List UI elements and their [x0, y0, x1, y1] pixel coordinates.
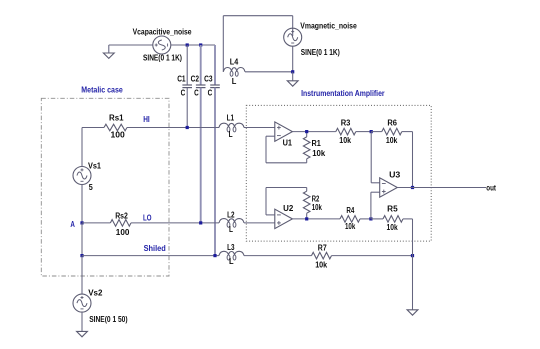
inductor L1 [219, 123, 244, 132]
node V4 bottom junction [291, 70, 294, 73]
op-amp U3 [380, 178, 398, 197]
label R7 [318, 244, 327, 253]
wire U1 feedback to R1 bottom [266, 162, 307, 164]
svg-text:Vcapacitive_noise: Vcapacitive_noise [133, 27, 192, 36]
wire ground to V3 left [109, 44, 153, 46]
node R4 / R5 junction [369, 217, 372, 220]
wire R2 bottom lead [306, 213, 308, 219]
instrumentation amplifier enclosure box (dotted) [246, 105, 431, 241]
node top of C1 [186, 43, 189, 46]
value 100 of Rs1 [111, 130, 126, 139]
svg-text:out: out [486, 183, 496, 192]
value C of C3 [208, 88, 213, 97]
svg-text:C: C [194, 88, 199, 97]
label L1 [227, 114, 235, 123]
label Vcapacitive_noise [133, 27, 192, 36]
node U2 output [305, 217, 308, 220]
inductor L2 [219, 219, 244, 228]
svg-text:Rs2: Rs2 [115, 211, 128, 220]
svg-text:U3: U3 [389, 171, 401, 180]
label R5 [387, 204, 398, 213]
voltage source Vs1 [73, 167, 91, 185]
label Rs2 [115, 211, 128, 220]
svg-text:10k: 10k [312, 149, 326, 158]
node HI / C1 junction [186, 126, 189, 129]
wire U2 inverting input left [266, 214, 275, 216]
svg-text:L: L [229, 257, 234, 266]
wire R3 node down to U3 inverting input [370, 132, 372, 183]
svg-text:C3: C3 [204, 75, 213, 84]
label R4 [346, 206, 354, 215]
wire R2 top lead [306, 188, 308, 192]
svg-text:A: A [70, 220, 75, 229]
label U3 [389, 171, 401, 180]
wire magnetic loop left down to L4 [222, 16, 224, 72]
label Instrumentation Amplifier [301, 89, 385, 98]
wire R6 to corner [402, 131, 413, 133]
net label A [70, 220, 75, 229]
label R3 [341, 119, 351, 128]
wire L4 to source bottom node [245, 71, 293, 73]
ground (below Vs2) [77, 331, 88, 336]
svg-text:SINE(0 1 50): SINE(0 1 50) [89, 315, 128, 324]
svg-text:10k: 10k [345, 222, 356, 231]
ground (right, below R5 node) [407, 310, 418, 315]
capacitor C3 [210, 85, 220, 88]
svg-text:Metalic case: Metalic case [81, 85, 123, 94]
svg-text:L1: L1 [227, 114, 235, 123]
label C3 [204, 75, 213, 84]
value C of C1 [181, 88, 186, 97]
wire magnetic loop top [223, 15, 292, 17]
value 100 of Rs2 [116, 228, 130, 237]
wire R3 to node [356, 131, 371, 133]
value 10k of R3 [339, 136, 351, 145]
wire R6 feedback down to output [412, 132, 414, 188]
value L of L2 [229, 225, 233, 234]
ground (left of Vcapacitive_noise) [103, 45, 114, 58]
resistor Rs2 [110, 220, 131, 227]
capacitor C1 [182, 85, 192, 88]
svg-text:C: C [181, 88, 186, 97]
svg-text:L4: L4 [230, 58, 239, 67]
wire Shiled tap to L3 [82, 255, 219, 257]
wire node A down to Shiled tap [81, 223, 83, 256]
svg-text:Shiled: Shiled [144, 244, 166, 253]
svg-text:HI: HI [143, 115, 150, 124]
node LO / C2 junction [199, 221, 202, 224]
wire node down to ground [412, 256, 414, 310]
value 10k of R5 [387, 223, 399, 232]
resistor R2 [303, 191, 310, 213]
wire C2 lower lead to LO [200, 88, 202, 223]
svg-text:L: L [232, 77, 237, 86]
wire Vs1 top corner to Rs1 [82, 127, 104, 129]
wire U2 output to R4 [292, 218, 340, 220]
label R1 [312, 139, 322, 148]
ground (below Vmagnetic_noise) [287, 81, 298, 86]
wire U1 output to R3 [292, 131, 335, 133]
wire node to ground stem [292, 72, 294, 81]
wire Rs1 to L1 [127, 127, 219, 129]
node A [80, 221, 83, 224]
label L4 [230, 58, 239, 67]
value L of L1 [229, 130, 233, 139]
resistor R5 [383, 216, 403, 223]
capacitor C2 [196, 85, 206, 88]
svg-text:10k: 10k [315, 260, 327, 269]
svg-text:C: C [208, 88, 213, 97]
value SINE(0 1 1K) of Vmagnetic_noise [301, 48, 340, 57]
wire R4 to node [360, 218, 371, 220]
label L3 [227, 243, 235, 252]
value 10k of R7 [315, 260, 327, 269]
value 10k of R4 [345, 222, 356, 231]
wire C1 upper lead [186, 45, 188, 85]
op-amp U2 [275, 209, 293, 228]
resistor R4 [340, 216, 360, 223]
label Rs1 [109, 114, 124, 123]
wire V3 right to capacitor tops [171, 44, 215, 46]
resistor R7 [312, 252, 332, 259]
wire L2 to U2 noninverting input [244, 222, 275, 224]
resistor R3 [336, 128, 356, 135]
inductor L4 [223, 67, 245, 76]
svg-text:Vs1: Vs1 [88, 161, 102, 170]
node top of C2 [199, 43, 202, 46]
svg-text:LO: LO [143, 213, 152, 222]
value 10k of R1 [312, 149, 326, 158]
svg-text:C1: C1 [177, 75, 186, 84]
svg-text:Vmagnetic_noise: Vmagnetic_noise [300, 22, 357, 31]
wire R1 top lead [306, 132, 308, 137]
value SINE(0 1 50) of Vs2 [89, 315, 128, 324]
value 5 of Vs1 [89, 183, 93, 192]
svg-text:SINE(0 1 1K): SINE(0 1 1K) [301, 48, 340, 57]
label Vs1 [88, 161, 102, 170]
wire R4 node to R5 [371, 218, 383, 220]
wire R5 down to ground node [412, 219, 414, 256]
svg-text:L2: L2 [227, 210, 235, 219]
wire R3 node to R6 [371, 131, 382, 133]
label R6 [387, 119, 397, 128]
wire C1 lower lead to HI [186, 88, 188, 128]
voltage source Vs2 [73, 294, 91, 312]
svg-text:L: L [229, 130, 233, 139]
svg-text:C2: C2 [191, 75, 200, 84]
label Vs2 [88, 289, 103, 298]
node Shiled tap [80, 254, 83, 257]
label L2 [227, 210, 235, 219]
wire into U3 noninverting input [371, 191, 380, 193]
net label out [486, 183, 496, 192]
resistor Rs1 [104, 124, 127, 131]
svg-text:R1: R1 [312, 139, 322, 148]
value SINE(0 1 1K) of Vcapacitive_noise [143, 53, 182, 62]
wire C2 upper lead [200, 45, 202, 85]
value 10k of R2 [312, 203, 323, 212]
wire C3 lower lead to Shiled [214, 88, 216, 256]
inductor L3 [219, 251, 244, 260]
resistor R6 [382, 128, 402, 135]
svg-text:SINE(0 1 1K): SINE(0 1 1K) [143, 53, 182, 62]
svg-text:100: 100 [111, 130, 126, 139]
label C2 [191, 75, 200, 84]
wire L1 to U1 noninverting input [244, 127, 275, 129]
wire R7 to right ground node [332, 255, 413, 257]
node Shiled / C3 junction [213, 254, 216, 257]
svg-text:Vs2: Vs2 [88, 289, 103, 298]
net label LO [143, 213, 152, 222]
wire R5 to corner [403, 218, 413, 220]
wire U1 feedback down [265, 136, 267, 163]
net label Shiled [144, 244, 166, 253]
node R3 / R6 junction [370, 130, 373, 133]
wire C3 upper lead [214, 45, 216, 85]
value 10k of R6 [386, 136, 398, 145]
svg-text:5: 5 [89, 183, 93, 192]
label R2 [312, 194, 320, 203]
value L of L4 [232, 77, 237, 86]
label C1 [177, 75, 186, 84]
svg-text:Rs1: Rs1 [109, 114, 124, 123]
svg-text:U1: U1 [283, 138, 293, 147]
wire V4 bottom to node [292, 46, 294, 72]
label U2 [283, 204, 294, 213]
wire U2 feedback up [265, 188, 267, 215]
wire U3 output to out [397, 187, 486, 189]
svg-text:R5: R5 [387, 204, 398, 213]
node U3 output [411, 186, 414, 189]
wire node A to Rs2 [82, 222, 110, 224]
wire U2 feedback to R2 top [266, 187, 307, 189]
wire R4 node up to U3 noninverting input [370, 192, 372, 219]
label Metalic case [81, 85, 123, 94]
svg-text:10k: 10k [339, 136, 351, 145]
node U1 output [305, 130, 308, 133]
wire R1 bottom lead [306, 159, 308, 163]
svg-text:10k: 10k [312, 203, 323, 212]
svg-text:U2: U2 [283, 204, 294, 213]
wire Vs1 bottom to node A [81, 184, 83, 223]
node right ground junction [411, 254, 414, 257]
svg-text:Instrumentation Amplifier: Instrumentation Amplifier [301, 89, 385, 98]
value L of L3 [229, 257, 234, 266]
svg-text:R4: R4 [346, 206, 354, 215]
net label HI [143, 115, 150, 124]
wire Vs2 bottom to ground [81, 312, 83, 331]
svg-text:L: L [229, 225, 233, 234]
svg-text:10k: 10k [387, 223, 399, 232]
voltage source V4 Vmagnetic_noise [284, 28, 302, 46]
wire magnetic loop right down to V4 [292, 16, 294, 36]
voltage source V3 Vcapacitive_noise [153, 36, 171, 54]
label U1 [283, 138, 293, 147]
wire Rs2 to L2 [131, 222, 219, 224]
wire into U3 inverting input [371, 182, 380, 184]
wire L3 to R7 [244, 255, 312, 257]
wire HI corner down to Vs1 [81, 128, 83, 167]
svg-text:R3: R3 [341, 119, 351, 128]
svg-text:R7: R7 [318, 244, 327, 253]
label Vmagnetic_noise [300, 22, 357, 31]
resistor R1 [303, 137, 310, 159]
svg-text:L3: L3 [227, 243, 235, 252]
svg-text:100: 100 [116, 228, 130, 237]
op-amp U1 [275, 122, 293, 141]
wire U1 inverting input left [266, 135, 275, 137]
svg-text:10k: 10k [386, 136, 398, 145]
value C of C2 [194, 88, 199, 97]
wire Shiled tap down to Vs2 [81, 256, 83, 295]
svg-text:R6: R6 [387, 119, 397, 128]
metallic case enclosure box (dash-dot) [41, 98, 169, 276]
